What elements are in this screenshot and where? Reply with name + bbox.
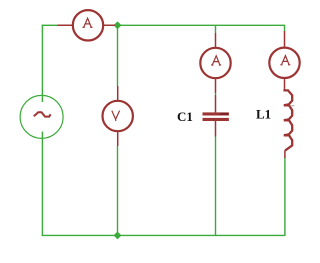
svg-text:L1: L1	[256, 106, 271, 121]
capacitor C1 top plate	[203, 112, 229, 115]
voltmeter V1 letter V	[112, 111, 120, 121]
ammeter A3 circle	[269, 48, 299, 78]
wire left rail upper	[41, 25, 43, 102]
wire top right segment	[118, 24, 286, 26]
wire L1 branch top stub	[284, 25, 286, 31]
wire C1 mid green joint	[215, 93, 217, 95]
ammeter A1 pins	[58, 24, 116, 26]
ammeter A2 circle	[200, 48, 230, 78]
wire voltmeter branch lower	[117, 146, 119, 236]
svg-text:C1: C1	[177, 109, 193, 124]
wire left rail lower	[41, 132, 43, 237]
ammeter A2 letter A	[211, 56, 221, 65]
capacitor C1 top pin	[215, 95, 217, 112]
inductor L1 coil	[283, 90, 292, 158]
node junction dot bottom	[114, 231, 122, 239]
voltmeter V1 pins	[117, 86, 119, 146]
wire C1 branch lower	[215, 137, 217, 237]
capacitor C1 top plate dark tip	[220, 113, 229, 115]
capacitor C1 bottom pin	[215, 121, 217, 137]
ammeter A3 pins	[284, 31, 286, 90]
wire C1 branch top stub	[215, 25, 217, 33]
voltmeter V1 circle	[103, 101, 133, 131]
inductor L1 gray artifact	[292, 106, 295, 115]
wire bottom rail	[42, 234, 286, 236]
wire L1 branch lower	[284, 158, 286, 237]
ammeter A3 letter A	[280, 56, 290, 65]
node junction dot top	[114, 21, 122, 29]
ammeter A2 pins	[215, 33, 217, 93]
wire top left segment	[42, 24, 58, 26]
capacitor C1 bottom plate	[203, 118, 229, 121]
AC source sine symbol	[34, 112, 51, 116]
wire voltmeter branch upper	[117, 25, 119, 86]
ammeter A1 letter A	[83, 18, 93, 27]
AC source V1 circle	[20, 95, 63, 138]
ammeter A1 circle	[73, 10, 103, 40]
